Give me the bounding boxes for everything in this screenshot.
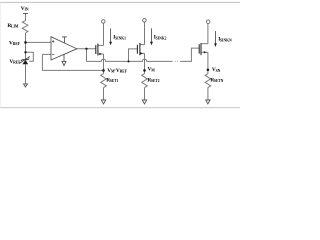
svg-text:REF: REF — [13, 42, 21, 46]
svg-text:SINKN: SINKN — [220, 38, 232, 42]
svg-text:SETN: SETN — [214, 79, 224, 83]
svg-text:SET2: SET2 — [151, 79, 160, 83]
svg-text:M: M — [151, 68, 155, 72]
svg-text:REF: REF — [120, 69, 128, 73]
svg-text:LIM: LIM — [11, 24, 19, 28]
svg-text:SINK1: SINK1 — [115, 36, 126, 40]
svg-text:SN: SN — [216, 69, 221, 73]
svg-text:SET1: SET1 — [110, 79, 119, 83]
svg-text:SINK2: SINK2 — [156, 36, 167, 40]
svg-text:REF: REF — [13, 60, 21, 64]
svg-text:IN: IN — [25, 8, 29, 12]
